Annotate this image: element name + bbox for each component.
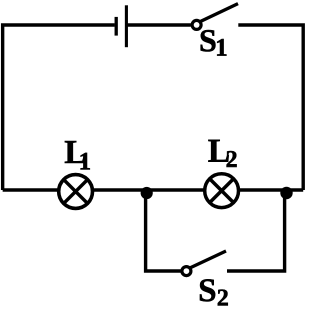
switch S1: [192, 4, 238, 30]
node A (junction dot, left): [141, 187, 153, 199]
label S1: [201, 30, 227, 56]
battery (cell): [116, 5, 126, 47]
wire: battery to switch S1: [126, 23, 190, 26]
switch S2: [182, 251, 226, 276]
label L1: [65, 141, 90, 169]
lamp L1: [59, 175, 93, 209]
wire: left edge vertical + top-left segment to battery: [3, 25, 115, 190]
wire: S1 to top-right corner, down right edge: [238, 25, 303, 190]
lamp L2: [205, 174, 239, 208]
label L2: [208, 140, 236, 167]
node B (junction dot, right): [280, 187, 292, 199]
wire: S2 to riser up to node B: [227, 192, 285, 271]
label S2: [200, 279, 228, 305]
wire: middle horizontal rail: [3, 188, 304, 191]
wire: branch from node A down and to switch S2: [146, 192, 181, 271]
